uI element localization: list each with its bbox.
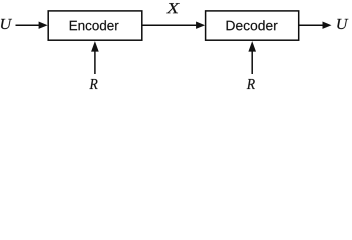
- node R (decoder rate label): [247, 79, 255, 89]
- wire R into decoder: [248, 41, 256, 74]
- wire U input: [16, 22, 48, 29]
- node U (input label): [1, 19, 12, 29]
- encoder block: [48, 11, 142, 40]
- node U (output label): [337, 19, 348, 29]
- decoder block: [206, 11, 299, 40]
- wire encoder to decoder: [142, 22, 205, 29]
- node R (encoder rate label): [89, 79, 97, 89]
- wire U output: [299, 22, 332, 29]
- node X (net label): [166, 3, 180, 13]
- wire R into encoder: [91, 41, 99, 74]
